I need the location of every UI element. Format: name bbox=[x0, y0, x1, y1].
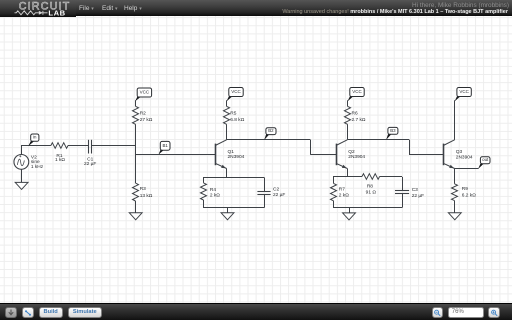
Build button bbox=[39, 307, 63, 318]
wire bottom rail to ground (stage3) bbox=[349, 208, 351, 213]
svg-text:91 Ω: 91 Ω bbox=[366, 190, 377, 196]
wire VCC to R2 bbox=[135, 100, 137, 106]
wire VCC to R5 bbox=[226, 100, 228, 106]
svg-text:22 µF: 22 µF bbox=[84, 161, 96, 167]
Simulate button bbox=[68, 307, 102, 318]
power flag VCC (R2) bbox=[136, 96, 141, 101]
node flag in bbox=[29, 140, 34, 145]
wire Q3 emitter to out bbox=[455, 168, 479, 170]
svg-text:22 µF: 22 µF bbox=[273, 192, 285, 198]
svg-text:1 kHz: 1 kHz bbox=[31, 164, 44, 170]
voltage source V2 sine symbol bbox=[17, 159, 24, 165]
wire node B1 to Q1 base bbox=[136, 154, 215, 156]
wire C1 to node B1 bbox=[92, 145, 136, 147]
ground for stage 3 bbox=[343, 213, 356, 220]
ground for R3 bbox=[129, 213, 142, 220]
svg-text:B1: B1 bbox=[162, 143, 168, 148]
resistor R9 bbox=[452, 184, 458, 201]
svg-text:R2: R2 bbox=[140, 111, 146, 117]
power flag VCC (R6) bbox=[348, 96, 353, 101]
svg-text:VCC: VCC bbox=[231, 89, 241, 94]
wire stage2 bottom rail bbox=[203, 207, 264, 209]
power flag VCC (R5) bbox=[227, 96, 232, 101]
menu Edit bbox=[102, 5, 118, 12]
svg-text:27 kΩ: 27 kΩ bbox=[140, 117, 153, 123]
wire R4 to bottom rail bbox=[203, 200, 205, 208]
resistor R4 bbox=[201, 183, 207, 200]
top menu bar bbox=[0, 0, 512, 16]
wire stage3 bottom rail bbox=[333, 207, 402, 209]
wire Q2 emitter down bbox=[347, 169, 349, 177]
svg-text:in: in bbox=[33, 135, 37, 140]
svg-text:R5: R5 bbox=[230, 111, 236, 117]
capacitor C1 bbox=[88, 140, 90, 154]
wire Q2 collector bus bbox=[348, 139, 409, 141]
ground for R9 bbox=[448, 213, 461, 220]
resistor R7 bbox=[331, 183, 337, 200]
wire Q1 emitter down bbox=[226, 169, 228, 178]
tool button: pan/drop bbox=[5, 307, 17, 318]
svg-text:6.2 kΩ: 6.2 kΩ bbox=[462, 193, 476, 199]
capacitor C3 bbox=[395, 190, 409, 192]
wire V2 bottom bbox=[21, 169, 23, 182]
wire Q2 emitter node left bbox=[333, 176, 362, 178]
transistor Q2 bbox=[336, 144, 338, 166]
wire B3 bus jog down bbox=[409, 140, 411, 155]
wire Q1 collector bus bbox=[227, 139, 311, 141]
node flag out bbox=[479, 163, 484, 168]
tool button: draw wire bbox=[22, 307, 34, 318]
resistor R6 bbox=[345, 106, 351, 124]
wire emitter node to C2 bbox=[264, 177, 266, 191]
svg-text:LAB: LAB bbox=[48, 8, 65, 17]
wire to C3 top plate bbox=[402, 177, 404, 191]
svg-text:R7: R7 bbox=[339, 187, 345, 193]
wire bottom rail to ground (stage2) bbox=[227, 208, 229, 213]
wire R1 to C1 bbox=[68, 145, 89, 147]
wire R9 to ground bbox=[454, 201, 456, 213]
voltage source V2 circle bbox=[14, 155, 29, 170]
svg-text:2N3904: 2N3904 bbox=[348, 154, 365, 160]
wire emitter node to R7 bbox=[333, 177, 335, 184]
wire VCC to Q3 collector bbox=[454, 100, 456, 140]
zoom out button bbox=[432, 307, 444, 318]
wire jog to Q2 base bbox=[310, 154, 336, 156]
node flag B3 bbox=[387, 133, 391, 139]
transistor Q3 bbox=[443, 144, 445, 166]
wire Q3 emitter to R9 bbox=[454, 169, 456, 184]
svg-text:22 µF: 22 µF bbox=[412, 193, 424, 199]
svg-text:R6: R6 bbox=[352, 111, 358, 117]
resistor R3 bbox=[133, 183, 139, 201]
resistor R2 bbox=[133, 106, 139, 124]
resistor R5 bbox=[224, 106, 230, 124]
svg-text:VCC: VCC bbox=[352, 89, 362, 94]
zoom in button bbox=[488, 307, 500, 318]
menu File bbox=[79, 5, 94, 12]
capacitor C2 bbox=[257, 191, 270, 193]
zoom level input bbox=[448, 307, 484, 318]
svg-text:Q2: Q2 bbox=[348, 149, 355, 155]
svg-text:6.8 kΩ: 6.8 kΩ bbox=[230, 117, 244, 123]
wire VCC to R6 bbox=[347, 100, 349, 106]
svg-text:2 kΩ: 2 kΩ bbox=[339, 193, 349, 199]
wire R2 to R3 (node B1 vertical) bbox=[135, 124, 137, 183]
resistor R1 bbox=[51, 143, 68, 149]
wire C3 to bottom rail bbox=[402, 193, 404, 207]
document title bbox=[282, 9, 508, 15]
svg-text:2N3904: 2N3904 bbox=[228, 154, 245, 160]
svg-text:R3: R3 bbox=[140, 186, 146, 192]
resistor R8 bbox=[362, 174, 380, 180]
svg-text:R4: R4 bbox=[210, 187, 216, 193]
wire B2 bus jog down bbox=[310, 140, 312, 155]
greeting text bbox=[412, 2, 509, 9]
node flag B2 bbox=[265, 134, 269, 139]
wire V2 top to R1 bbox=[22, 146, 51, 155]
svg-text:C3: C3 bbox=[412, 187, 418, 193]
wire R7 to bottom rail bbox=[333, 201, 335, 208]
wire jog to Q3 base bbox=[409, 154, 443, 156]
svg-text:2N3904: 2N3904 bbox=[456, 154, 473, 160]
menu Help bbox=[124, 5, 142, 12]
transistor Q1 bbox=[215, 144, 217, 166]
svg-text:B2: B2 bbox=[268, 128, 274, 133]
svg-text:13 kΩ: 13 kΩ bbox=[140, 193, 153, 199]
svg-text:1 kΩ: 1 kΩ bbox=[55, 157, 65, 163]
svg-text:Q1: Q1 bbox=[228, 149, 235, 155]
svg-text:2 kΩ: 2 kΩ bbox=[210, 193, 220, 199]
wire R3 to ground bbox=[135, 201, 137, 213]
wire R8 to C3 bbox=[380, 176, 402, 178]
svg-text:2.7 kΩ: 2.7 kΩ bbox=[352, 117, 366, 123]
bottom toolbar bbox=[0, 303, 512, 320]
svg-text:VCC: VCC bbox=[140, 90, 150, 95]
svg-text:R8: R8 bbox=[367, 183, 373, 189]
ground for stage 2 bbox=[221, 213, 234, 220]
wire emitter node to R4 bbox=[203, 177, 205, 183]
svg-text:VCC: VCC bbox=[459, 89, 469, 94]
node flag B1 bbox=[159, 149, 163, 154]
wire R5 to Q1 collector bbox=[226, 124, 228, 140]
power flag VCC (Q3) bbox=[455, 96, 460, 101]
wire Q1 emitter node bbox=[203, 177, 264, 179]
ground for V2 bbox=[15, 182, 28, 189]
wire C2 to bottom rail bbox=[264, 194, 266, 208]
wire R6 to Q2 collector bbox=[347, 124, 349, 140]
svg-text:R9: R9 bbox=[462, 186, 468, 192]
svg-text:C2: C2 bbox=[273, 187, 279, 193]
CircuitLab logo bbox=[0, 0, 76, 17]
svg-text:Q3: Q3 bbox=[456, 149, 463, 155]
svg-text:out: out bbox=[482, 157, 489, 162]
svg-text:B3: B3 bbox=[390, 128, 396, 133]
